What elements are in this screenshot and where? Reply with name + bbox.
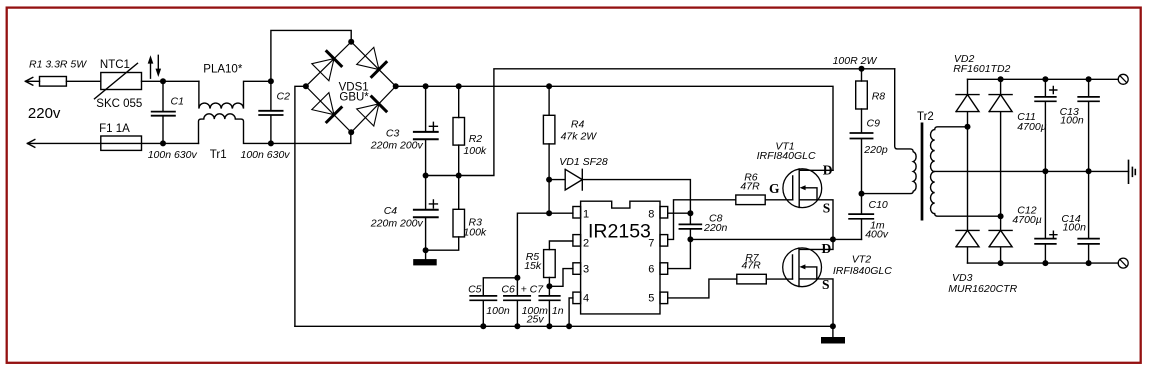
svg-text:D: D [823,163,833,178]
svg-text:S: S [823,200,831,215]
svg-text:100n 630v: 100n 630v [241,149,291,161]
svg-text:C4: C4 [384,205,398,217]
svg-text:SKC 055: SKC 055 [96,98,142,110]
svg-text:4: 4 [583,292,589,304]
svg-text:S: S [822,277,830,292]
svg-text:C3: C3 [386,128,400,140]
svg-text:R1 3.3R 5W: R1 3.3R 5W [29,59,87,71]
svg-text:Tr1: Tr1 [210,149,227,161]
svg-text:100n: 100n [486,305,510,317]
svg-text:F1 1A: F1 1A [99,123,130,135]
svg-text:3: 3 [583,263,589,275]
svg-text:400v: 400v [865,229,889,241]
svg-text:100k: 100k [463,227,487,239]
svg-text:100n: 100n [1063,222,1087,234]
svg-text:C10: C10 [869,199,888,211]
svg-text:4700µ: 4700µ [1017,121,1046,133]
svg-text:PLA10*: PLA10* [203,63,243,75]
svg-text:C1: C1 [171,95,184,107]
svg-text:220m 200v: 220m 200v [370,139,424,151]
svg-text:47R: 47R [742,260,762,272]
svg-text:MUR1620CTR: MUR1620CTR [948,283,1017,295]
svg-text:G: G [769,181,780,196]
svg-text:6: 6 [648,263,654,275]
svg-text:8: 8 [648,209,654,221]
svg-text:+ C7: + C7 [521,284,545,296]
svg-text:GBU*: GBU* [339,92,369,104]
svg-text:R8: R8 [872,90,886,102]
svg-text:VT2: VT2 [852,254,871,266]
svg-text:7: 7 [648,237,654,249]
svg-text:220m 200v: 220m 200v [370,218,424,230]
svg-text:100k: 100k [463,145,487,157]
svg-text:NTC1: NTC1 [100,59,130,71]
svg-text:100R 2W: 100R 2W [833,55,878,67]
svg-text:IRFI840GLC: IRFI840GLC [833,265,892,277]
svg-text:IRFI840GLC: IRFI840GLC [757,150,816,162]
svg-text:D: D [822,241,832,256]
svg-text:15k: 15k [524,260,542,272]
svg-text:RF1601TD2: RF1601TD2 [953,63,1010,75]
svg-text:VD3: VD3 [952,272,973,284]
svg-text:100n 630v: 100n 630v [148,149,198,161]
svg-text:C2: C2 [277,91,291,103]
svg-text:R2: R2 [469,133,483,145]
svg-text:100n: 100n [1060,115,1084,127]
svg-text:220n: 220n [703,222,728,234]
svg-text:1n: 1n [552,305,564,317]
svg-text:VD1 SF28: VD1 SF28 [559,156,608,168]
svg-text:220p: 220p [863,144,888,156]
svg-text:C6: C6 [501,284,515,296]
svg-text:C9: C9 [867,118,881,130]
svg-text:220v: 220v [28,105,61,122]
svg-text:25v: 25v [526,314,545,326]
svg-text:C5: C5 [468,284,482,296]
svg-text:IR2153: IR2153 [588,220,651,242]
svg-text:5: 5 [648,292,654,304]
svg-text:47k 2W: 47k 2W [561,130,598,142]
svg-text:R4: R4 [571,119,585,131]
svg-text:4700µ: 4700µ [1012,214,1041,226]
svg-text:1: 1 [583,209,589,221]
svg-text:2: 2 [583,237,589,249]
svg-text:Tr2: Tr2 [917,111,934,123]
svg-text:47R: 47R [740,180,760,192]
